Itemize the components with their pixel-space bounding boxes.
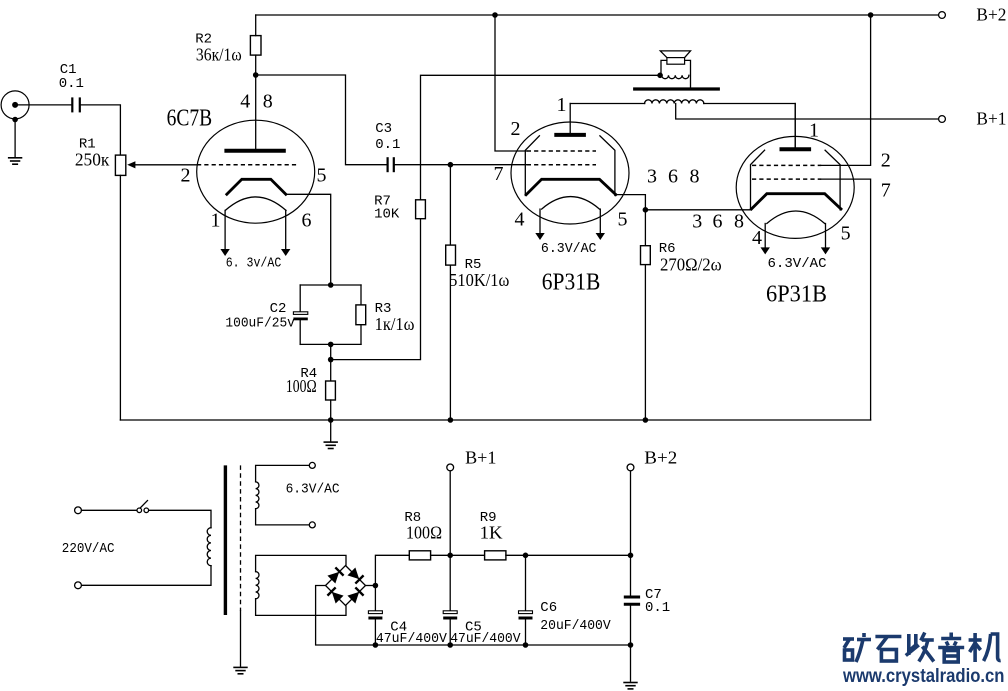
- U3 screen grid (dashed): [752, 164, 821, 166]
- U3 plate bar: [780, 147, 812, 151]
- resistor R3: [356, 305, 366, 325]
- svg-text:0.1: 0.1: [59, 76, 84, 92]
- glyph shou: [906, 633, 934, 662]
- wire screen feed to U2 pin2: [495, 15, 527, 151]
- U2 beam plate left: [525, 136, 539, 196]
- U2 heater leg pin5: [599, 209, 601, 233]
- T1 HV secondary: [256, 572, 259, 599]
- wire jack to C1: [15, 104, 71, 106]
- svg-text:4: 4: [240, 91, 250, 113]
- tube U3 6P31B: [736, 136, 854, 254]
- wire B+2 node up to terminal: [630, 471, 632, 556]
- svg-text:6. 3v/AC: 6. 3v/AC: [226, 256, 282, 272]
- node B+1: [447, 553, 453, 559]
- wire C5 bottom: [449, 620, 451, 646]
- node screen feed on B+2 rail: [492, 12, 498, 18]
- resistor R8: [409, 551, 430, 560]
- svg-text:6.3V/AC: 6.3V/AC: [286, 482, 340, 498]
- svg-text:47uF/400V: 47uF/400V: [450, 631, 521, 647]
- svg-text:0.1: 0.1: [375, 137, 400, 153]
- wire R1 bottom to ground rail: [119, 175, 121, 420]
- wire switch to T1 primary: [149, 510, 211, 527]
- svg-text:1K: 1K: [480, 523, 503, 543]
- svg-text:250к: 250к: [75, 150, 110, 170]
- svg-text:7: 7: [881, 179, 891, 201]
- speaker frame: [661, 60, 691, 87]
- svg-text:10K: 10K: [374, 206, 400, 222]
- wire U2 plate to output transformer: [570, 103, 644, 105]
- node R4/rail: [328, 417, 334, 423]
- T1 6.3V secondary: [256, 482, 259, 509]
- glyph kuang: [843, 633, 871, 662]
- bypass box top wire: [300, 284, 361, 286]
- U3 control grid (dashed): [752, 178, 821, 180]
- terminal mains L: [75, 507, 82, 514]
- ground (PSU): [623, 683, 637, 689]
- negative rail: [375, 644, 630, 646]
- capacitor C5: [443, 611, 457, 618]
- output transformer T2 core: [633, 87, 720, 90]
- resistor R4: [326, 381, 336, 400]
- resistor R5: [446, 245, 456, 265]
- wire R4 to ground rail: [330, 400, 332, 420]
- U1 heater leg pin6: [285, 210, 287, 250]
- terminal B+1 (PSU): [447, 464, 454, 471]
- diode D4 (lower-right): [347, 587, 363, 603]
- wire R2 top lead: [255, 15, 257, 36]
- wire R3 branch lower: [360, 325, 362, 345]
- potentiometer R1: [115, 155, 135, 175]
- U1 heater arc: [225, 197, 286, 211]
- wire C2 branch lower: [299, 320, 301, 344]
- terminal 6.3V bottom: [309, 522, 315, 528]
- U1 heater leg pin1: [224, 210, 226, 250]
- node B (grid junction): [448, 162, 454, 168]
- resistor R7: [416, 200, 426, 219]
- svg-text:6.3V/AC: 6.3V/AC: [541, 241, 597, 257]
- svg-text:2: 2: [181, 165, 191, 187]
- node C6: [523, 553, 529, 559]
- wire C1 to R1: [81, 105, 121, 155]
- svg-text:B+1: B+1: [976, 108, 1006, 128]
- wire R8 to B+1 node: [431, 554, 485, 556]
- transformer T1 core dashed: [240, 465, 242, 611]
- svg-text:6: 6: [302, 210, 312, 232]
- wire R7 to cathode node: [331, 219, 421, 360]
- capacitor C1: [72, 97, 80, 112]
- svg-text:6P31B: 6P31B: [542, 270, 601, 296]
- wire C6 bottom: [525, 620, 527, 646]
- wire bridge plus to R8: [375, 555, 409, 585]
- node C6/rail: [523, 642, 529, 648]
- transformer T1 core solid: [224, 465, 227, 615]
- svg-text:100Ω: 100Ω: [406, 523, 442, 543]
- wire rail to PSU ground: [630, 645, 632, 681]
- glyph ji: [969, 633, 1001, 662]
- node D (box bottom): [328, 342, 334, 348]
- svg-text:www.crystalradio.cn: www.crystalradio.cn: [842, 666, 1004, 687]
- svg-text:270Ω/2ω: 270Ω/2ω: [660, 254, 722, 274]
- node F (cathode bus / R6): [643, 207, 649, 213]
- resistor R9: [485, 551, 506, 560]
- U2 heater arc: [542, 197, 600, 210]
- node R6/rail: [643, 417, 649, 423]
- capacitor C4: [368, 611, 382, 618]
- svg-text:7: 7: [494, 163, 504, 185]
- U2 heater leg pin4: [539, 209, 541, 233]
- svg-text:6.3V/AC: 6.3V/AC: [768, 256, 827, 272]
- U3 beam plate left: [751, 150, 765, 210]
- wire C7 bottom: [630, 606, 632, 645]
- svg-text:100uF/25v: 100uF/25v: [225, 315, 295, 331]
- watermark logo 矿石收音机: [843, 633, 1001, 663]
- node U3 screen/rail: [868, 12, 874, 18]
- U1 plate bar: [224, 149, 285, 153]
- svg-text:C3: C3: [375, 121, 392, 137]
- switch S1: [137, 501, 149, 513]
- wire R1 wiper to 6C7B grid: [135, 164, 198, 166]
- wire C4 top: [374, 586, 376, 611]
- wire HV bottom lead: [256, 599, 346, 616]
- node C5/rail: [447, 642, 453, 648]
- wire U1 plate lead: [255, 75, 257, 151]
- diode D3 (lower-left): [327, 587, 343, 603]
- U2 screen grid (dashed): [527, 150, 596, 152]
- wire T2 primary right to U3 plate: [704, 104, 795, 150]
- svg-text:510K/1ω: 510K/1ω: [449, 270, 509, 290]
- terminal B+2: [939, 12, 946, 19]
- node R5/rail: [448, 417, 454, 423]
- svg-text:20uF/400V: 20uF/400V: [540, 618, 611, 634]
- capacitor C7: [624, 597, 640, 604]
- capacitor C3: [388, 157, 394, 172]
- svg-text:6P31B: 6P31B: [766, 282, 827, 308]
- svg-text:B+1: B+1: [465, 447, 496, 467]
- wire U2 cathode lead: [616, 195, 646, 210]
- wire B+1 node up to terminal: [449, 471, 451, 556]
- wire C7 top: [630, 555, 632, 595]
- svg-text:2: 2: [511, 118, 521, 140]
- svg-text:5: 5: [618, 208, 628, 230]
- terminal mains N: [75, 582, 82, 589]
- svg-text:100Ω: 100Ω: [286, 376, 317, 396]
- output transformer T2 primary: [645, 100, 704, 104]
- svg-text:4: 4: [515, 208, 525, 230]
- node B+2: [628, 553, 634, 559]
- wire mains top: [82, 509, 137, 511]
- speaker cone: [660, 51, 690, 58]
- cathode bus wire to U3: [645, 209, 751, 211]
- transformer T1 primary: [207, 528, 211, 566]
- capacitor C2: [293, 312, 307, 319]
- resistor R6: [644, 210, 646, 246]
- wire C3 to U2 grid: [395, 164, 527, 166]
- wire box bottom to R4: [330, 344, 332, 381]
- U2 control grid (dashed): [527, 164, 596, 166]
- U1 grid (dashed): [197, 164, 298, 166]
- U3 heater leg pin4: [764, 224, 766, 248]
- wire jack ground stem: [14, 120, 16, 157]
- svg-text:2: 2: [881, 149, 891, 171]
- svg-text:0.1: 0.1: [645, 600, 670, 616]
- wire bridge plus: [366, 585, 376, 587]
- wire B+1 tap: [676, 104, 939, 120]
- diode D1 (upper-left): [327, 567, 343, 583]
- tube U2 6P31B: [511, 122, 629, 240]
- svg-text:6: 6: [668, 165, 678, 187]
- top B+2 rail: [256, 14, 939, 16]
- svg-text:6C7B: 6C7B: [167, 105, 213, 131]
- svg-text:1: 1: [809, 120, 819, 142]
- wire C6 top: [525, 555, 527, 611]
- wire R5 to ground rail: [449, 265, 451, 420]
- wire HV top lead: [256, 555, 346, 571]
- svg-text:C6: C6: [540, 600, 557, 616]
- U3 heater leg pin5: [825, 224, 827, 248]
- wire U3 grid to ground rail: [821, 179, 871, 420]
- wire C2 branch upper: [299, 285, 301, 312]
- U3 beam plate right: [825, 150, 840, 210]
- wire C5 top: [449, 555, 451, 611]
- wire 6.3V bottom lead: [256, 509, 309, 525]
- node C4/rail: [373, 642, 379, 648]
- svg-text:36к/1ω: 36к/1ω: [196, 45, 242, 65]
- svg-text:8: 8: [690, 165, 700, 187]
- svg-text:1к/1ω: 1к/1ω: [375, 314, 415, 334]
- svg-text:1: 1: [211, 210, 221, 232]
- ground (main): [324, 442, 338, 448]
- wire R2 bottom lead: [255, 55, 257, 75]
- wire node B to R5: [449, 165, 451, 245]
- wire U3 plate lead: [794, 104, 796, 150]
- node C (cathode top of bypass box): [328, 282, 334, 288]
- node A (R2/plate junction): [253, 72, 259, 78]
- wire R9 to B+2 node: [506, 554, 631, 556]
- svg-text:1: 1: [557, 94, 567, 116]
- speaker magnet: [667, 58, 685, 65]
- bridge rectifier D1-D4: [326, 566, 366, 606]
- speaker LS1: [660, 51, 690, 88]
- wire U1 cathode lead: [286, 194, 331, 285]
- terminal B+2 (PSU): [627, 464, 634, 471]
- ground (T1 core): [233, 667, 247, 673]
- svg-text:4: 4: [752, 227, 762, 249]
- U2 beam plate right: [600, 136, 615, 196]
- node C7/rail: [628, 642, 634, 648]
- wire rail ground stem: [330, 420, 332, 441]
- speaker voice coil: [662, 75, 689, 78]
- wire T1 primary bottom: [82, 566, 212, 586]
- svg-text:3: 3: [692, 211, 702, 233]
- wire 6.3V top lead: [256, 465, 309, 482]
- U3 cathode: [751, 194, 841, 209]
- U3 heater arc: [767, 211, 825, 224]
- U2 cathode: [526, 179, 616, 194]
- feedback wire (speaker to R7): [421, 75, 661, 200]
- ground (input jack): [8, 158, 22, 164]
- input jack J1: [1, 91, 29, 122]
- svg-text:220V/AC: 220V/AC: [62, 541, 115, 557]
- capacitor C6: [519, 611, 533, 618]
- bypass box bottom wire: [300, 343, 361, 345]
- U2 plate bar: [554, 133, 586, 137]
- wire core to ground: [240, 611, 242, 666]
- tube U1 6C7B: [197, 120, 315, 256]
- node speaker/feedback: [657, 73, 663, 79]
- wire C4 bottom: [374, 620, 376, 646]
- svg-text:B+2: B+2: [976, 4, 1006, 24]
- U1 cathode: [227, 179, 286, 194]
- resistor R2: [250, 36, 261, 56]
- diode D2 (upper-right): [347, 567, 363, 583]
- svg-text:8: 8: [734, 211, 744, 233]
- node E (feedback return): [328, 357, 334, 363]
- svg-text:6: 6: [713, 211, 723, 233]
- ground rail (top section): [120, 419, 870, 421]
- glyph shi: [875, 637, 901, 662]
- wire R6 to ground rail: [644, 265, 646, 420]
- terminal B+1: [939, 116, 946, 123]
- terminal 6.3V top: [309, 462, 315, 468]
- svg-text:B+2: B+2: [644, 447, 677, 467]
- svg-text:5: 5: [841, 223, 851, 245]
- svg-text:5: 5: [317, 165, 327, 187]
- wire U3 screen to B+2 rail: [821, 15, 871, 165]
- svg-text:8: 8: [263, 91, 273, 113]
- wire R3 branch upper: [360, 285, 362, 305]
- node bridge plus: [373, 583, 379, 589]
- wire U2 plate lead: [569, 104, 571, 135]
- wire node A to C3: [256, 75, 387, 165]
- svg-text:3: 3: [647, 165, 657, 187]
- glyph yin: [938, 633, 964, 663]
- wire bridge minus to rail: [316, 586, 376, 646]
